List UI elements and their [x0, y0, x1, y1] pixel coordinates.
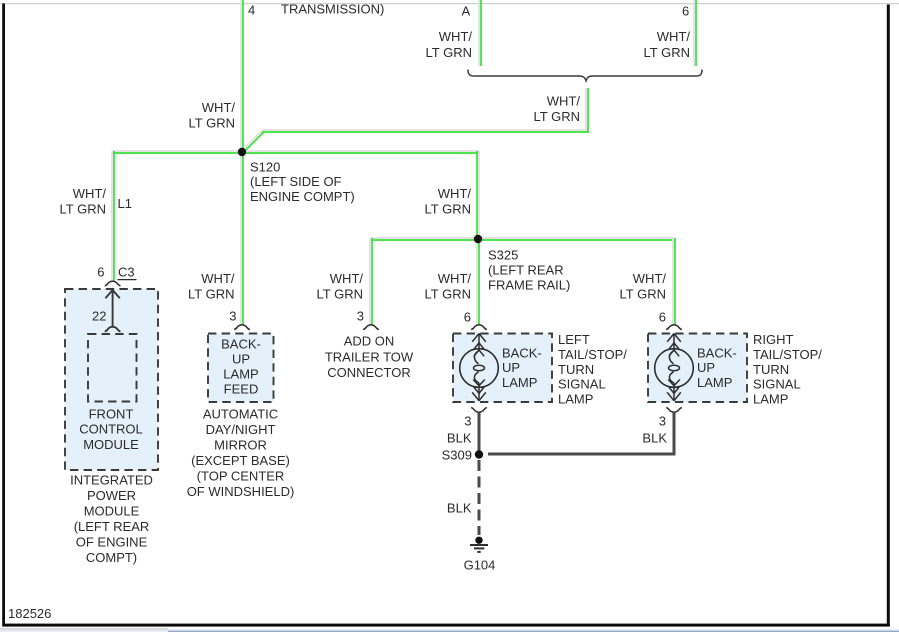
right back-up lamp bulb symbol [655, 334, 694, 413]
svg-text:CONNECTOR: CONNECTOR [327, 365, 411, 380]
svg-text:22: 22 [92, 309, 106, 324]
svg-text:WHT/: WHT/ [633, 271, 667, 286]
wire S325 left to trailer tow connector (WHT/LT GRN) [370, 238, 478, 325]
svg-text:CONTROL: CONTROL [79, 422, 143, 437]
svg-text:BLK: BLK [447, 501, 472, 516]
svg-text:LT GRN: LT GRN [426, 45, 472, 60]
svg-text:FRAME RAIL): FRAME RAIL) [488, 278, 570, 293]
svg-text:L1: L1 [118, 196, 132, 211]
S120 horizontal bus wire [111, 151, 479, 153]
wire S120 to C3 (left branch, WHT/LT GRN) [112, 151, 114, 282]
left back-up lamp bulb symbol [460, 334, 499, 413]
svg-text:WHT/: WHT/ [657, 29, 691, 44]
svg-text:LAMP: LAMP [223, 367, 258, 382]
svg-text:3: 3 [464, 414, 471, 429]
svg-text:3: 3 [229, 309, 236, 324]
page border frame (decorative) [0, 3, 899, 5]
left back-up lamp connector socket [471, 325, 487, 330]
svg-text:ENGINE COMPT): ENGINE COMPT) [250, 189, 355, 204]
wire S325 down to left back-up lamp (WHT/LT GRN) [477, 239, 479, 325]
svg-text:LT GRN: LT GRN [60, 202, 106, 217]
svg-text:LT GRN: LT GRN [644, 45, 690, 60]
svg-text:WHT/: WHT/ [202, 100, 236, 115]
svg-text:UP: UP [502, 360, 520, 375]
svg-text:MODULE: MODULE [84, 503, 140, 518]
add on trailer tow connector socket [363, 325, 379, 330]
svg-text:SIGNAL: SIGNAL [753, 377, 801, 392]
svg-text:4: 4 [248, 3, 255, 18]
ground G104 [470, 537, 488, 552]
svg-text:SIGNAL: SIGNAL [558, 377, 606, 392]
svg-text:FRONT: FRONT [89, 406, 134, 421]
svg-text:TRAILER TOW: TRAILER TOW [325, 349, 414, 364]
svg-text:6: 6 [97, 265, 104, 280]
svg-text:LAMP: LAMP [558, 391, 593, 406]
svg-text:TRANSMISSION): TRANSMISSION) [281, 2, 384, 17]
svg-text:RIGHT: RIGHT [753, 332, 794, 347]
BLK ground wire (dashed) from S309 to G104 [478, 460, 481, 535]
svg-text:AUTOMATIC: AUTOMATIC [203, 407, 278, 422]
front control module inner box [88, 334, 137, 402]
splice S325 dot [474, 235, 482, 243]
svg-text:LT GRN: LT GRN [425, 287, 471, 302]
svg-text:WHT/: WHT/ [330, 271, 364, 286]
BLK wire from right lamp down and left to S309 [488, 413, 676, 455]
svg-text:TAIL/STOP/: TAIL/STOP/ [558, 347, 627, 362]
svg-text:LT GRN: LT GRN [620, 287, 666, 302]
svg-text:UP: UP [697, 360, 715, 375]
BLK wire from left lamp to S309 [478, 413, 481, 455]
svg-text:UP: UP [232, 352, 250, 367]
svg-text:LAMP: LAMP [753, 391, 788, 406]
svg-text:C3: C3 [118, 265, 135, 280]
svg-text:182526: 182526 [8, 606, 51, 621]
svg-text:S325: S325 [488, 248, 518, 263]
svg-text:(LEFT REAR: (LEFT REAR [74, 519, 150, 534]
svg-text:(LEFT SIDE OF: (LEFT SIDE OF [250, 174, 342, 189]
connector C3 socket [105, 281, 121, 286]
wire from transmission (WHT/LT GRN), vertical x=242 top [241, 0, 243, 152]
svg-text:OF ENGINE: OF ENGINE [76, 534, 148, 549]
svg-text:WHT/: WHT/ [547, 94, 581, 109]
front control module internal connector arrow, pin 22 [105, 288, 121, 331]
svg-text:WHT/: WHT/ [439, 29, 473, 44]
svg-text:6: 6 [464, 310, 471, 325]
svg-text:TURN: TURN [558, 362, 594, 377]
wire S120 to S325 (WHT/LT GRN) [477, 151, 479, 239]
svg-text:A: A [462, 4, 471, 19]
wire S325 right to right back-up lamp (WHT/LT GRN) [478, 238, 675, 325]
svg-text:G104: G104 [464, 558, 496, 573]
svg-text:WHT/: WHT/ [438, 271, 472, 286]
svg-text:LT GRN: LT GRN [189, 116, 235, 131]
svg-text:WHT/: WHT/ [73, 186, 107, 201]
svg-text:(TOP CENTER: (TOP CENTER [197, 469, 285, 484]
connector C3 label [118, 265, 137, 280]
back-up lamp feed connector socket [234, 325, 250, 330]
svg-text:6: 6 [659, 310, 666, 325]
svg-text:BACK-: BACK- [502, 345, 542, 360]
svg-text:LT GRN: LT GRN [425, 202, 471, 217]
svg-text:BACK-: BACK- [697, 345, 737, 360]
svg-text:LAMP: LAMP [697, 375, 732, 390]
svg-text:INTEGRATED: INTEGRATED [70, 472, 153, 487]
splice S309 [475, 450, 483, 458]
svg-text:3: 3 [659, 414, 666, 429]
svg-text:LT GRN: LT GRN [317, 287, 363, 302]
splice S120 dot [238, 148, 246, 156]
svg-text:(LEFT REAR: (LEFT REAR [488, 263, 564, 278]
left back-up lamp box [453, 334, 552, 403]
svg-text:S120: S120 [250, 159, 280, 174]
svg-text:LEFT: LEFT [558, 332, 590, 347]
svg-text:WHT/: WHT/ [201, 271, 235, 286]
right back-up lamp box [648, 334, 747, 403]
wire stub 6 (WHT/LT GRN) [694, 0, 696, 66]
svg-text:OF WINDSHIELD): OF WINDSHIELD) [187, 484, 295, 499]
svg-text:FEED: FEED [224, 382, 259, 397]
wire from brace down then left to S120 (WHT/LT GRN) [242, 88, 589, 153]
wire S120 to back-up lamp feed (WHT/LT GRN) [241, 152, 243, 325]
brace joining stubs A and 6 [468, 70, 702, 81]
svg-text:TAIL/STOP/: TAIL/STOP/ [753, 347, 822, 362]
svg-text:TURN: TURN [753, 362, 789, 377]
svg-text:POWER: POWER [87, 488, 136, 503]
svg-text:BLK: BLK [642, 431, 667, 446]
front control module outer box [65, 289, 158, 470]
svg-text:6: 6 [682, 4, 689, 19]
svg-text:MIRROR: MIRROR [214, 438, 267, 453]
svg-text:ADD ON: ADD ON [344, 334, 395, 349]
svg-text:(EXCEPT BASE): (EXCEPT BASE) [191, 453, 290, 468]
svg-text:WHT/: WHT/ [438, 186, 472, 201]
svg-text:LAMP: LAMP [502, 375, 537, 390]
svg-text:S309: S309 [442, 448, 472, 463]
svg-text:DAY/NIGHT: DAY/NIGHT [206, 422, 276, 437]
svg-text:3: 3 [357, 309, 364, 324]
svg-text:LT GRN: LT GRN [188, 287, 234, 302]
wire stub A (WHT/LT GRN) [479, 0, 481, 66]
svg-text:BLK: BLK [447, 431, 472, 446]
right back-up lamp connector socket [666, 325, 682, 330]
svg-text:MODULE: MODULE [83, 437, 139, 452]
back-up lamp feed box [208, 334, 274, 403]
svg-text:LT GRN: LT GRN [534, 109, 580, 124]
svg-text:BACK-: BACK- [221, 336, 261, 351]
svg-text:COMPT): COMPT) [86, 550, 137, 565]
